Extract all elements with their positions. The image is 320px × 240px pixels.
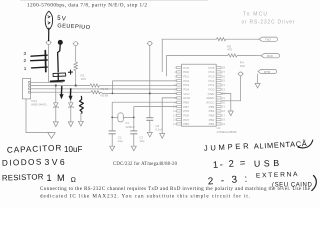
- svg-text:0.1uF: 0.1uF: [155, 127, 163, 131]
- svg-text:RESISTOR: RESISTOR: [2, 172, 44, 182]
- svg-text:5V: 5V: [57, 15, 68, 23]
- svg-text:10p: 10p: [139, 139, 144, 143]
- svg-text:DTR: DTR: [264, 70, 271, 74]
- svg-text:dedicated IC like MAX232. You: dedicated IC like MAX232. You can substi…: [40, 193, 250, 200]
- svg-text:PB1: PB1: [209, 122, 215, 126]
- svg-text:470: 470: [227, 48, 232, 52]
- svg-text:Connecting to the RS-232C chan: Connecting to the RS-232C channel requir…: [40, 186, 311, 192]
- svg-text:USB: USB: [254, 158, 280, 169]
- svg-text:TxD: TxD: [265, 38, 271, 42]
- svg-text:12MHz: 12MHz: [125, 125, 135, 129]
- svg-text:3V6: 3V6: [45, 157, 66, 167]
- svg-text:(M55-0442): (M55-0442): [31, 103, 47, 107]
- svg-text:1K5: 1K5: [81, 77, 87, 81]
- svg-text:(SEU CAIND: (SEU CAIND: [272, 182, 312, 188]
- svg-text:3: 3: [24, 51, 27, 56]
- svg-text:68: 68: [105, 94, 109, 98]
- svg-text:10K: 10K: [240, 64, 245, 68]
- svg-text:10p: 10p: [118, 139, 123, 143]
- svg-text:RxD: RxD: [267, 54, 274, 58]
- svg-text:PB0: PB0: [183, 122, 189, 126]
- svg-text:2: 2: [24, 58, 27, 63]
- svg-text:DIODOS: DIODOS: [2, 157, 42, 167]
- svg-text:CDC/232 for ATmega48/88-20: CDC/232 for ATmega48/88-20: [113, 162, 178, 167]
- svg-text:To MCU: To MCU: [243, 12, 267, 18]
- svg-text:15: 15: [222, 122, 226, 126]
- svg-text:1- 2 =: 1- 2 =: [212, 157, 246, 170]
- svg-text:1200-57600bps, data 7/8, parit: 1200-57600bps, data 7/8, parity N/E/O, s…: [27, 3, 147, 9]
- svg-text:14: 14: [173, 122, 177, 126]
- svg-text:1: 1: [24, 66, 27, 71]
- svg-text:Ω: Ω: [71, 177, 76, 184]
- svg-text:or RS-232C Driver: or RS-232C Driver: [242, 20, 295, 26]
- svg-text:ATMEGA48/88: ATMEGA48/88: [217, 130, 237, 134]
- svg-text:10uF: 10uF: [64, 145, 83, 154]
- svg-text:68: 68: [105, 87, 109, 91]
